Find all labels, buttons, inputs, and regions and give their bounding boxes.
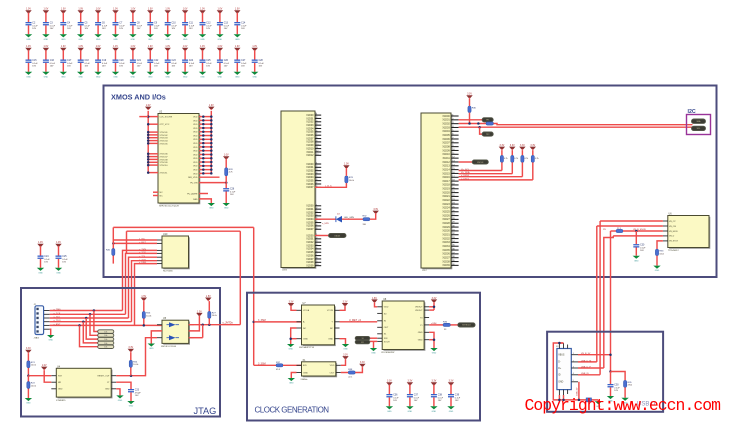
svg-text:C17: C17 xyxy=(67,60,72,62)
svg-text:GND: GND xyxy=(26,403,31,405)
svg-text:SN74LVC2G34: SN74LVC2G34 xyxy=(161,346,177,348)
wire usb vertical 3 down to USB box xyxy=(604,236,613,368)
svg-text:XTDO05: XTDO05 xyxy=(160,143,169,145)
wire U4 CT to C23 xyxy=(116,382,131,389)
svg-text:u_TDI: u_TDI xyxy=(54,317,60,319)
svg-text:Copyright:www.eccn.com: Copyright:www.eccn.com xyxy=(525,396,721,415)
power 1.0V right of U2 xyxy=(208,105,214,110)
svg-text:C25: C25 xyxy=(62,256,67,258)
wire U5 pin2 to ground xyxy=(151,331,162,344)
wire vbus tee to filter xyxy=(609,370,625,384)
svg-text:VDD: VDD xyxy=(330,365,335,367)
svg-text:X1D02: X1D02 xyxy=(442,122,450,125)
svg-text:USB_5V: USB_5V xyxy=(576,387,578,396)
U2 right power bus wire with junctions xyxy=(199,111,213,175)
svg-text:X1D10: X1D10 xyxy=(442,153,450,156)
svg-text:GND: GND xyxy=(558,382,563,384)
svg-text:GND: GND xyxy=(224,208,229,210)
svg-text:XTDO03: XTDO03 xyxy=(160,138,169,140)
ground below R35 xyxy=(621,398,628,405)
svg-text:USB_ID: USB_ID xyxy=(581,373,589,375)
svg-text:16V: 16V xyxy=(67,28,71,30)
svg-text:OUT: OUT xyxy=(330,372,335,374)
resistor R33 10k2 xyxy=(655,249,664,266)
svg-text:GND: GND xyxy=(26,39,31,41)
svg-text:GND: GND xyxy=(371,353,376,355)
wire R34 to U6 xyxy=(623,229,663,232)
ground below U8 right xyxy=(430,348,437,355)
svg-text:GND: GND xyxy=(343,349,348,351)
capacitor C14 with power and ground xyxy=(234,9,248,41)
svg-text:C21: C21 xyxy=(137,60,142,62)
svg-text:GND: GND xyxy=(418,332,423,334)
svg-text:C12: C12 xyxy=(206,22,211,24)
svg-text:X1D07: X1D07 xyxy=(442,142,450,145)
resistor R35 470k xyxy=(624,380,633,397)
svg-text:NC: NC xyxy=(303,328,307,330)
capacitor C18 with power and ground xyxy=(77,46,91,78)
svg-text:16V: 16V xyxy=(206,66,210,68)
wire J2 ground pin xyxy=(50,329,51,335)
svg-text:16V: 16V xyxy=(230,194,234,196)
svg-text:X1D06: X1D06 xyxy=(442,138,450,141)
svg-text:GND: GND xyxy=(48,340,53,342)
wire U5 output to net vertical xyxy=(189,322,241,326)
U6 left pin stubs and labels xyxy=(663,221,679,243)
U3C right pin comb xyxy=(442,115,458,268)
svg-text:1: 1 xyxy=(573,353,574,355)
svg-text:4.7k: 4.7k xyxy=(535,158,539,160)
wire U2 PAD to ground xyxy=(193,198,211,203)
svg-text:X1D28: X1D28 xyxy=(442,222,450,225)
svg-text:GND: GND xyxy=(165,39,170,41)
svg-text:GND: GND xyxy=(235,76,240,78)
svg-text:GND: GND xyxy=(235,39,240,41)
capacitor C26 with power and ground xyxy=(216,46,230,78)
wire R36 to XSYSCLK pill xyxy=(450,324,457,326)
svg-text:16V: 16V xyxy=(50,28,54,30)
svg-text:VDD: VDD xyxy=(193,154,198,156)
IC U6 USB power chip xyxy=(668,216,711,249)
svg-text:X1D04: X1D04 xyxy=(442,130,450,133)
svg-text:C19: C19 xyxy=(102,60,107,62)
capacitor C22 with power and ground xyxy=(147,46,161,78)
svg-text:X1D18: X1D18 xyxy=(442,184,450,187)
svg-text:XOUT: XOUT xyxy=(384,341,391,343)
capacitor C20 with power and ground xyxy=(112,46,126,78)
svg-text:u_JMTDo: u_JMTDo xyxy=(223,322,234,325)
svg-text:GND: GND xyxy=(408,411,413,413)
svg-text:VDD: VDD xyxy=(193,120,198,122)
svg-text:X1D38: X1D38 xyxy=(442,260,450,263)
wire X1 VDD to power xyxy=(341,360,346,366)
capacitor C21 with power and ground xyxy=(129,46,143,78)
svg-text:16V: 16V xyxy=(102,66,106,68)
svg-text:X1D25: X1D25 xyxy=(442,211,450,214)
svg-text:u_LED1: u_LED1 xyxy=(461,178,470,180)
svg-text:c24M: c24M xyxy=(431,323,437,325)
svg-text:u_TDO: u_TDO xyxy=(54,320,61,322)
ferrite bead on shield xyxy=(586,398,591,402)
capacitor C11 with power and ground xyxy=(181,9,195,41)
U2 pin MR_VDD stub xyxy=(188,177,219,179)
svg-text:X1D35: X1D35 xyxy=(442,249,450,252)
IC U8 clock buffer xyxy=(382,301,425,351)
capacitor C4 with power and ground xyxy=(60,9,74,41)
svg-text:24MHz: 24MHz xyxy=(301,379,308,381)
svg-text:VB_STLR: VB_STLR xyxy=(669,241,678,243)
power 3.3V above U7 VCCA xyxy=(288,301,294,306)
svg-text:GND: GND xyxy=(328,339,333,341)
U3B right pin comb group3 xyxy=(306,204,321,231)
ground below R33 xyxy=(653,266,660,273)
svg-text:16V: 16V xyxy=(640,250,644,252)
svg-text:VDD: VDD xyxy=(193,166,198,168)
svg-text:16V: 16V xyxy=(393,400,397,402)
svg-text:NC: NC xyxy=(160,192,164,194)
svg-text:C23: C23 xyxy=(172,60,177,62)
IC U3 port C tall chip xyxy=(421,113,452,269)
svg-text:GND: GND xyxy=(655,270,660,272)
svg-text:16V: 16V xyxy=(119,66,123,68)
svg-text:XSCLK: XSCLK xyxy=(477,162,484,164)
svg-text:C16: C16 xyxy=(50,60,55,62)
X1 pin stubs and labels xyxy=(297,365,341,374)
ground below U4 GND xyxy=(116,395,123,402)
svg-text:u_SPD: u_SPD xyxy=(322,223,329,225)
svg-text:GND: GND xyxy=(218,39,223,41)
svg-text:16V: 16V xyxy=(224,66,228,68)
svg-text:16V: 16V xyxy=(32,28,36,30)
svg-text:GND: GND xyxy=(44,39,49,41)
resistor R29 10.0k xyxy=(345,169,355,183)
J3 shield stubs xyxy=(559,343,567,395)
svg-text:GND: GND xyxy=(252,76,257,78)
resistor R24 pull-up xyxy=(129,352,139,375)
svg-text:X1D20: X1D20 xyxy=(442,191,450,194)
svg-text:X1D00: X1D00 xyxy=(442,115,450,118)
svg-text:VB_MON: VB_MON xyxy=(669,231,678,233)
pill xtal link 2 xyxy=(355,340,370,344)
power above U8 VDD xyxy=(371,298,377,303)
wire 3V3 to U7 input xyxy=(254,321,302,323)
svg-text:16V: 16V xyxy=(241,66,245,68)
svg-text:3_3SM: 3_3SM xyxy=(258,362,266,365)
svg-text:LED_GRN: LED_GRN xyxy=(344,217,354,219)
svg-text:X1D13: X1D13 xyxy=(442,165,450,168)
svg-text:GND: GND xyxy=(148,39,153,41)
svg-text:16V: 16V xyxy=(438,400,442,402)
wire usb vertical 1 down to USB box xyxy=(596,226,598,362)
svg-text:GND: GND xyxy=(303,372,308,374)
capacitor C5 with power and ground xyxy=(77,9,91,41)
svg-text:SN74AUP1T34: SN74AUP1T34 xyxy=(299,346,315,349)
capacitor C39 with power and ground xyxy=(447,381,461,413)
svg-text:C26: C26 xyxy=(230,188,235,190)
JTAG block border xyxy=(21,288,220,417)
svg-text:u_TCK: u_TCK xyxy=(54,313,61,315)
wire net bus B horizontal xyxy=(127,230,241,232)
capacitor C7 with power and ground xyxy=(112,9,126,41)
svg-text:C50: C50 xyxy=(614,384,619,386)
svg-text:GND: GND xyxy=(113,76,118,78)
svg-text:X1D33: X1D33 xyxy=(442,241,450,244)
J2 pin stubs xyxy=(44,311,50,330)
wire U3C to R31 series xyxy=(459,122,486,125)
svg-text:i2c_SDA: i2c_SDA xyxy=(461,171,470,174)
svg-text:GND: GND xyxy=(418,340,423,342)
U4 pin stubs and labels xyxy=(51,376,116,391)
svg-text:VB_B_SNCE: VB_B_SNCE xyxy=(633,229,646,231)
svg-text:SCL: SCL xyxy=(697,128,701,130)
svg-text:GND: GND xyxy=(289,383,294,385)
ground below C30 xyxy=(633,256,640,263)
U10 left pin stubs xyxy=(157,240,162,264)
svg-text:GND: GND xyxy=(432,353,437,355)
capacitor C38 with power and ground xyxy=(430,381,444,413)
connector J2 JTAG header xyxy=(34,304,44,340)
svg-text:JTAG: JTAG xyxy=(194,406,217,416)
svg-text:C26: C26 xyxy=(224,60,229,62)
svg-text:16V: 16V xyxy=(102,28,106,30)
wire to lower pill xyxy=(480,127,483,134)
wire usb net 4 xyxy=(613,235,663,237)
svg-text:16V: 16V xyxy=(85,28,89,30)
ground below X1 xyxy=(288,378,295,385)
svg-text:16V: 16V xyxy=(414,400,418,402)
svg-text:4.7k: 4.7k xyxy=(524,158,528,160)
svg-text:C20: C20 xyxy=(119,60,124,62)
wire R37 to X1 xyxy=(283,364,302,366)
svg-text:RESET_OUT: RESET_OUT xyxy=(97,376,110,378)
U3B right pin comb group4 xyxy=(306,234,321,267)
wire U7 output to U8 xyxy=(340,319,378,322)
capacitor C36 with power and ground xyxy=(386,381,400,413)
ground below U2 PAD xyxy=(208,203,215,210)
resistor R22 lower xyxy=(27,376,37,398)
svg-text:u_TMS: u_TMS xyxy=(54,309,62,311)
svg-text:C24: C24 xyxy=(44,256,49,258)
wire X1 OUT to R38 xyxy=(341,372,348,374)
svg-text:XIN: XIN xyxy=(384,338,388,340)
U8 left pin stubs and labels xyxy=(377,307,390,344)
svg-text:C11: C11 xyxy=(189,22,194,24)
wire U5 pin3 feedback xyxy=(189,325,203,338)
svg-text:i2c_SCL: i2c_SCL xyxy=(461,169,470,171)
wire U5 pin2R to power xyxy=(189,316,200,331)
svg-text:MR: MR xyxy=(58,382,62,384)
capacitor C10 with power and ground xyxy=(164,9,178,41)
svg-text:GND: GND xyxy=(131,39,136,41)
svg-text:NC: NC xyxy=(160,195,164,197)
USB data wires with net labels xyxy=(576,353,611,396)
capacitor C17 with power and ground xyxy=(60,46,74,78)
U3B right pin comb group2 xyxy=(306,163,321,190)
wire U10 pin1 to left bus xyxy=(113,239,157,241)
svg-text:PU: PU xyxy=(603,229,606,231)
capacitor C24 with power and ground xyxy=(37,242,51,274)
svg-text:GND: GND xyxy=(209,208,214,210)
capacitor C19 with power and ground xyxy=(94,46,108,78)
svg-text:GND: GND xyxy=(96,76,101,78)
capacitor C28 with power and ground xyxy=(251,46,265,78)
wire U8 GND pins to ground xyxy=(429,332,435,348)
wire usb vertical 4 down to USB box xyxy=(610,231,612,372)
junction dots and drops to resistor network xyxy=(78,309,97,346)
svg-text:X1D29: X1D29 xyxy=(442,226,450,229)
pull-up resistors bank for port C xyxy=(499,145,539,180)
svg-text:X1D27: X1D27 xyxy=(442,218,450,221)
wire U2 PU_EN to pull-up xyxy=(190,181,227,184)
svg-text:X1D24: X1D24 xyxy=(442,207,450,210)
ground below U5 input xyxy=(148,344,155,351)
resistor R30 4.7k xyxy=(468,99,477,124)
svg-text:5: 5 xyxy=(573,380,574,382)
svg-text:2: 2 xyxy=(573,360,574,362)
svg-text:GND: GND xyxy=(634,260,639,262)
svg-text:X1D43: X1D43 xyxy=(334,235,340,237)
svg-text:GND: GND xyxy=(56,272,61,274)
svg-text:TP1: TP1 xyxy=(486,120,489,122)
wire U10 pin2 to left bus xyxy=(112,242,157,245)
power 3.3V left of U4 xyxy=(25,348,31,353)
svg-text:L_B_S: L_B_S xyxy=(325,185,332,187)
wire net bus A horizontal xyxy=(113,226,253,228)
ground below R22 xyxy=(25,398,32,405)
I2C connector box xyxy=(687,109,711,135)
svg-text:16V: 16V xyxy=(62,262,66,264)
power above U4 pin2 xyxy=(41,365,47,370)
capacitor C15 with power and ground xyxy=(25,46,39,78)
power 3.3V above U7 VCCB xyxy=(342,301,348,306)
svg-text:GND: GND xyxy=(44,76,49,78)
svg-text:C28: C28 xyxy=(259,60,264,62)
svg-text:C38: C38 xyxy=(438,394,443,396)
wire usb net 2 xyxy=(597,225,663,227)
svg-text:X1D26: X1D26 xyxy=(442,214,450,217)
svg-text:OUT: OUT xyxy=(384,327,389,329)
svg-text:XTDO01: XTDO01 xyxy=(160,132,169,134)
wire usb net 1 xyxy=(600,220,663,222)
svg-text:VDD: VDD xyxy=(193,139,198,141)
ground below C26 xyxy=(223,203,230,210)
CLOCK GENERATION block border xyxy=(247,293,480,421)
svg-text:XTDO07: XTDO07 xyxy=(160,157,169,159)
svg-text:X1D09: X1D09 xyxy=(442,149,450,152)
pill header I2C pin2 xyxy=(692,126,706,130)
resistor R36 33 xyxy=(443,322,450,331)
svg-text:X1D36: X1D36 xyxy=(442,253,450,256)
svg-text:C30: C30 xyxy=(640,244,645,246)
svg-text:C37: C37 xyxy=(414,394,419,396)
wire left vertical net with resistor R40 xyxy=(106,227,115,263)
USB block border xyxy=(547,332,663,412)
svg-text:VBUS: VBUS xyxy=(558,355,565,357)
resistor R32 330 xyxy=(363,216,370,226)
svg-text:GND: GND xyxy=(200,39,205,41)
svg-text:GND: GND xyxy=(449,411,454,413)
power 3.3V above X1 VDD xyxy=(342,355,348,360)
diode D2 LED xyxy=(336,214,342,223)
wire R32 to power xyxy=(370,213,376,219)
capacitor C37 with power and ground xyxy=(406,381,420,413)
svg-text:VDD: VDD xyxy=(384,307,389,309)
capacitor C12 with power and ground xyxy=(199,9,213,41)
svg-text:VDD: VDD xyxy=(193,135,198,137)
resistor R31 series xyxy=(486,122,494,125)
wire U7 GND right to ground xyxy=(340,339,346,344)
pill connector XSYSCLK output xyxy=(458,323,475,327)
svg-text:GND: GND xyxy=(183,39,188,41)
svg-text:X1D37: X1D37 xyxy=(442,257,450,260)
wire U8 VBOUT pins to power xyxy=(429,303,435,310)
svg-text:MR_VDD: MR_VDD xyxy=(188,177,198,179)
resistor R34 22.1 xyxy=(616,228,623,233)
capacitor C50 2.2uF xyxy=(608,384,621,396)
svg-text:16V: 16V xyxy=(85,66,89,68)
svg-text:VDD: VDD xyxy=(193,151,198,153)
IC U10 small chip xyxy=(162,236,190,269)
svg-text:X1D07: X1D07 xyxy=(306,228,314,231)
svg-text:GND: GND xyxy=(118,400,123,402)
wire U8 Y1 to R36 xyxy=(429,323,443,325)
wire U3B to pull-up R29 xyxy=(315,183,346,187)
svg-text:VBOUT: VBOUT xyxy=(415,307,423,309)
buffer triangle 2 xyxy=(169,335,176,340)
wires U10 pins 3-7 down to JTAG xyxy=(123,231,158,325)
wire 3V3 to oscillator resistor xyxy=(254,362,276,365)
svg-text:C36: C36 xyxy=(393,394,398,396)
svg-text:TPD4S012: TPD4S012 xyxy=(668,250,679,252)
svg-text:GND: GND xyxy=(58,389,63,391)
wire U3C scl to pill xyxy=(459,119,483,121)
svg-text:X1D23: X1D23 xyxy=(442,203,450,206)
wire I2C SCL long xyxy=(459,126,693,129)
capacitor C25 with power and ground xyxy=(55,242,69,274)
svg-text:4: 4 xyxy=(573,373,574,375)
svg-text:16V: 16V xyxy=(44,262,48,264)
J3 right pin stubs xyxy=(571,353,578,382)
IC U4 reset supervisor xyxy=(56,368,112,398)
power 1.5V above R27 xyxy=(205,296,211,301)
resistor R26 10.0k pull-up xyxy=(142,301,152,327)
svg-text:C22: C22 xyxy=(154,60,159,62)
svg-text:16V: 16V xyxy=(50,66,54,68)
svg-text:GND: GND xyxy=(96,39,101,41)
svg-text:USB_D_M: USB_D_M xyxy=(581,360,592,362)
svg-text:GND: GND xyxy=(113,39,118,41)
svg-text:X1D12: X1D12 xyxy=(442,161,450,164)
svg-text:X1D31: X1D31 xyxy=(442,234,450,237)
svg-text:16V: 16V xyxy=(32,66,36,68)
XMOS AND I/Os block border xyxy=(104,86,717,278)
svg-text:GND: GND xyxy=(129,406,134,408)
svg-text:16V: 16V xyxy=(154,66,158,68)
wire I2C SDA long xyxy=(494,124,693,125)
capacitor C6 with power and ground xyxy=(94,9,108,41)
power above R38 xyxy=(359,362,365,367)
svg-text:VDD: VDD xyxy=(193,132,198,134)
svg-text:STM6825: STM6825 xyxy=(56,400,66,402)
svg-text:U10: U10 xyxy=(163,233,168,236)
wire U6 stlr to R33 xyxy=(657,241,663,249)
wire U7 VCCB to power xyxy=(340,307,346,311)
resistor network RN1 pill stack xyxy=(98,330,114,349)
svg-text:GND: GND xyxy=(78,39,83,41)
svg-text:GND: GND xyxy=(105,389,110,391)
svg-text:16V: 16V xyxy=(135,395,139,397)
svg-text:X1D11: X1D11 xyxy=(443,157,451,160)
